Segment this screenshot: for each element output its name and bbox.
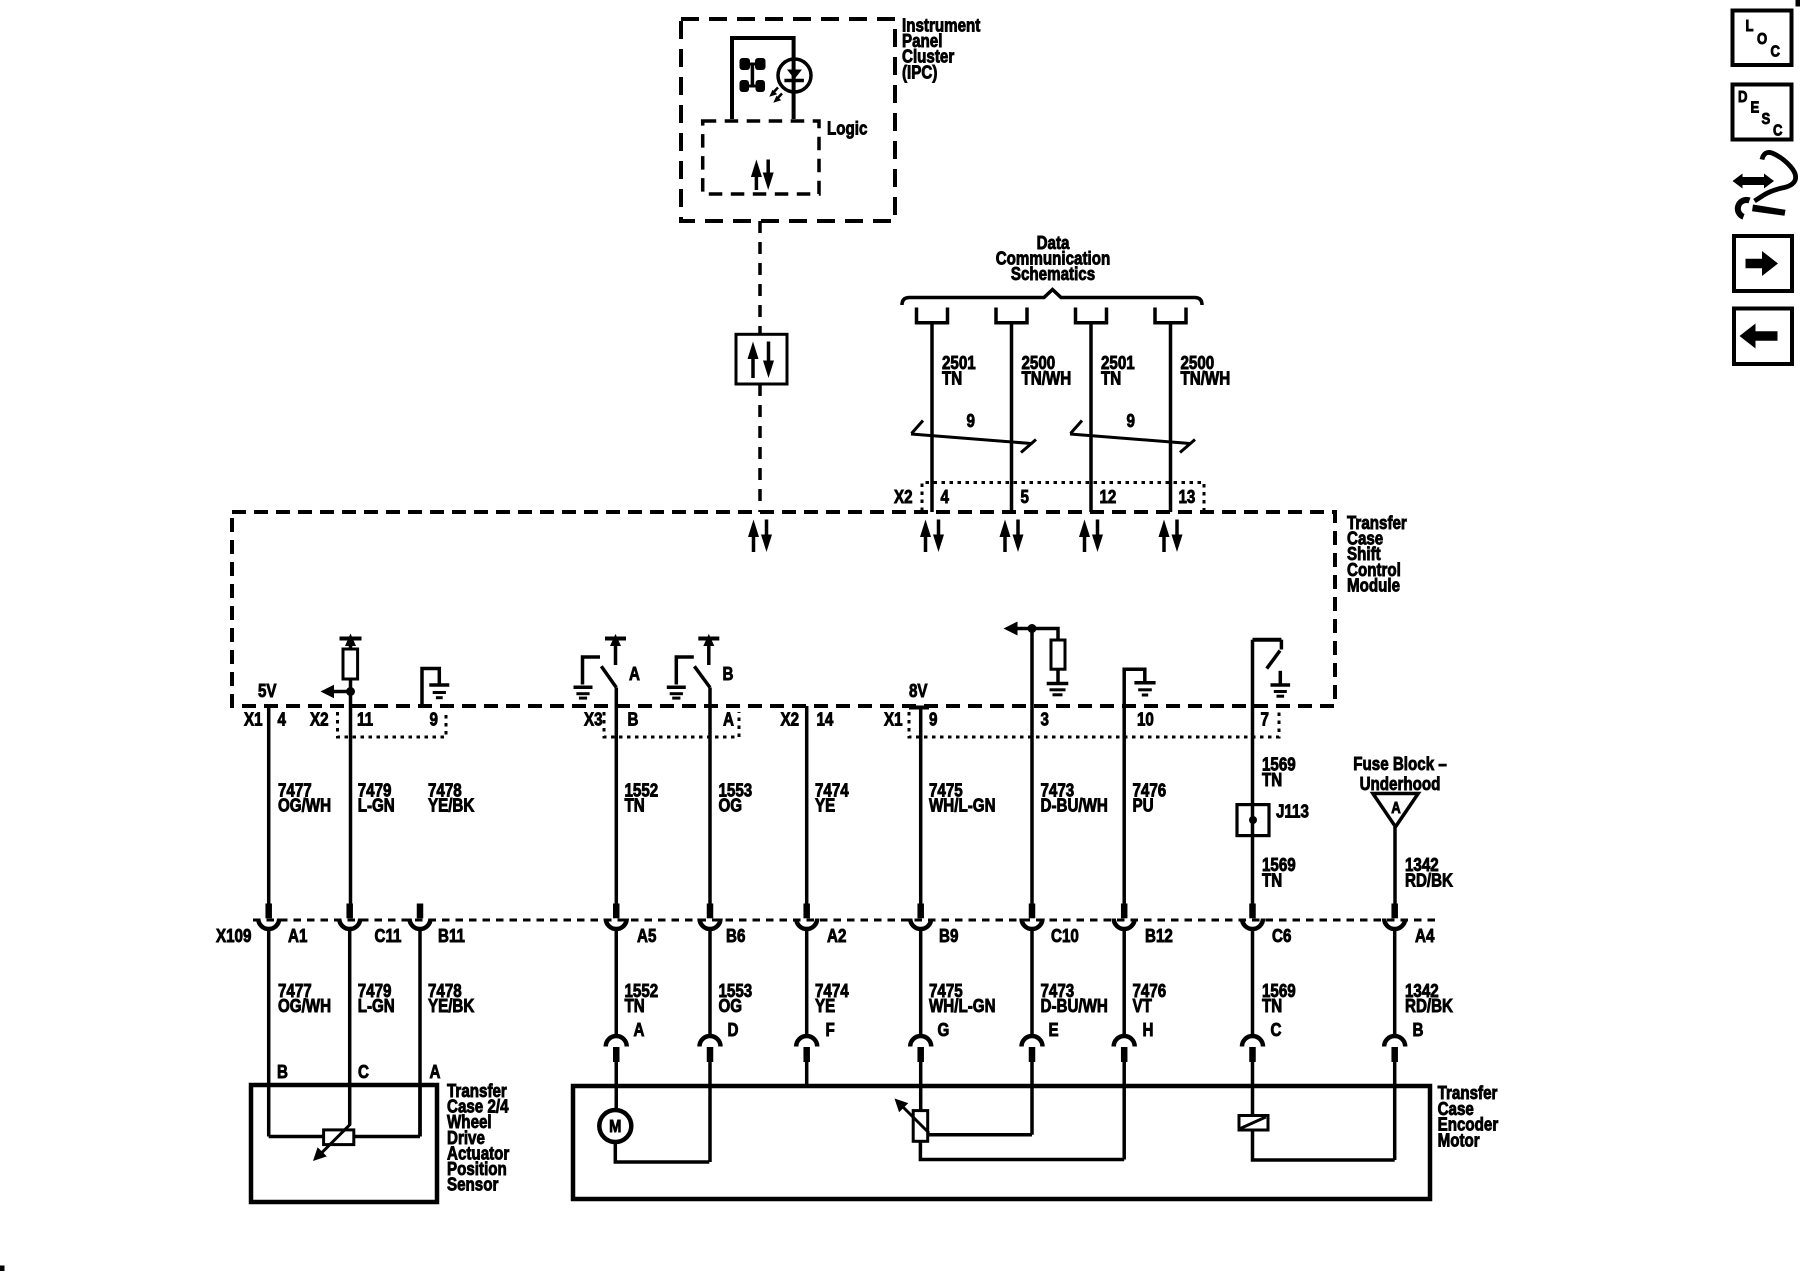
- svg-text:E: E: [1751, 99, 1760, 116]
- up/down arrows inside connector box: [748, 342, 775, 379]
- wire label 7475 WH/L-GN: [929, 780, 996, 816]
- signal direction arrow (left): [321, 685, 351, 698]
- ground below R2: [1047, 669, 1069, 695]
- svg-text:3: 3: [1041, 709, 1049, 730]
- sensor potentiometer wiper arrow: [313, 1124, 351, 1161]
- wire switch B to pin X3-A: [708, 688, 712, 905]
- svg-text:C: C: [1271, 1020, 1282, 1041]
- svg-text:G: G: [938, 1020, 950, 1041]
- svg-text:11: 11: [357, 709, 373, 730]
- svg-text:YE/BK: YE/BK: [428, 795, 475, 816]
- X109 terminal B11: male plug: [417, 904, 424, 919]
- svg-text:VT: VT: [1133, 996, 1153, 1017]
- svg-text:Underhood: Underhood: [1360, 774, 1441, 795]
- encoder pot wiper arrow: [895, 1099, 930, 1134]
- svg-text:A5: A5: [637, 926, 656, 947]
- twisted pair symbol 2: [1070, 421, 1195, 453]
- encoder switch contact: [1239, 1116, 1395, 1161]
- svg-text:Motor: Motor: [1438, 1130, 1480, 1151]
- X109 terminal B6: female arc: [700, 919, 721, 930]
- svg-text:C6: C6: [1272, 926, 1291, 947]
- Transfer Case 2/4 Wheel Drive Actuator Position Sensor box: [251, 1085, 437, 1202]
- wire label 7473 D-BU/WH (below X109): [1041, 981, 1108, 1017]
- svg-text:(IPC): (IPC): [902, 62, 937, 83]
- svg-text:RD/BK: RD/BK: [1405, 870, 1454, 891]
- svg-text:Schematics: Schematics: [1011, 264, 1095, 285]
- data bus terminal 2 (U symbol): [996, 308, 1027, 323]
- mode switch A inside module: [574, 634, 627, 698]
- X2 top connector dotted box: [922, 483, 1204, 512]
- wire X109 down to encoder connector (x=1252.5): [1251, 930, 1255, 1036]
- wire X1-4 (5V reference): [267, 706, 271, 904]
- wire X109 down to encoder connector (x=806.7): [805, 930, 809, 1036]
- svg-text:J113: J113: [1276, 801, 1309, 822]
- svg-text:M: M: [609, 1117, 621, 1137]
- wire label 1569 TN (below J113): [1262, 855, 1296, 891]
- svg-text:RD/BK: RD/BK: [1405, 996, 1454, 1017]
- X109 terminal C11: male plug: [346, 904, 353, 919]
- back arrow icon box: [1734, 309, 1792, 365]
- fuse A triangle symbol: [1373, 794, 1418, 827]
- mode switch B inside module: [667, 634, 720, 698]
- page corner mark bottom-left: [0, 1266, 5, 1272]
- svg-text:A: A: [1391, 800, 1401, 817]
- encoder connector terminal A: male plug: [613, 1047, 620, 1062]
- wire pin X1-7: [1251, 640, 1255, 904]
- svg-text:L: L: [1746, 18, 1754, 35]
- encoder connector terminal C: male plug: [1249, 1047, 1256, 1062]
- svg-text:OG: OG: [719, 795, 743, 816]
- wire label 1342 RD/BK (below X109): [1405, 981, 1454, 1017]
- resistor R2: [1051, 640, 1065, 669]
- in-line connector box on serial data line: [736, 334, 787, 384]
- X2 pin dotted box (pins 11, 9): [338, 712, 447, 737]
- encoder connector terminal G: male plug: [917, 1047, 924, 1062]
- svg-text:X109: X109: [216, 926, 251, 947]
- wire label 1553 OG: [719, 780, 753, 816]
- X109 terminal A4: female arc: [1384, 919, 1405, 930]
- LED indicator U1 circle: [778, 59, 811, 92]
- 4WD drivetrain icon: [740, 58, 766, 92]
- X109 terminal C6: male plug: [1249, 904, 1256, 919]
- svg-text:Sensor: Sensor: [447, 1174, 499, 1195]
- wire label 1553 OG (below X109): [719, 981, 753, 1017]
- svg-text:C: C: [358, 1062, 369, 1083]
- svg-text:YE: YE: [815, 795, 835, 816]
- wire B11 to sensor A: [418, 930, 422, 1137]
- wire label 1552 TN: [625, 780, 659, 816]
- svg-text:C: C: [1773, 122, 1783, 139]
- wire B into encoder box: [1393, 1062, 1397, 1160]
- X109 inline connector dashed line: [253, 919, 1440, 922]
- wire X109 down to encoder connector (x=616.25): [615, 930, 619, 1036]
- svg-text:X3: X3: [584, 709, 603, 730]
- wire H into encoder box: [1122, 1062, 1126, 1160]
- wire A into motor: [615, 1062, 619, 1110]
- LED diode symbol: [784, 70, 804, 81]
- IPC indicator lamp branch (solid U): [732, 38, 794, 119]
- svg-text:C10: C10: [1051, 926, 1079, 947]
- Fuse Block - Underhood label: [1353, 754, 1447, 795]
- svg-text:B: B: [277, 1062, 288, 1083]
- X109 terminal B11: female arc: [410, 919, 431, 930]
- data bus wire 3: [1089, 323, 1093, 512]
- wire switch A to pin X3-B: [615, 688, 619, 905]
- svg-text:WH/L-GN: WH/L-GN: [929, 795, 996, 816]
- svg-text:TN: TN: [625, 795, 645, 816]
- encoder connector terminal C: female arc: [1242, 1036, 1263, 1047]
- internal ground at pin X1-10: [1124, 669, 1155, 706]
- X3 pin dotted box (pins B, A): [604, 712, 739, 737]
- svg-text:A1: A1: [288, 926, 307, 947]
- wire label 2500 TN/WH: [1022, 353, 1072, 389]
- motor M circle: [599, 1110, 631, 1142]
- svg-text:9: 9: [1127, 411, 1135, 432]
- svg-text:L-GN: L-GN: [358, 795, 395, 816]
- Transfer Case Shift Control Module dashed box: [232, 512, 1335, 706]
- data bus terminal 4 (U symbol): [1155, 308, 1186, 323]
- svg-text:10: 10: [1137, 709, 1154, 730]
- svg-text:A2: A2: [827, 926, 846, 947]
- svg-text:5V: 5V: [258, 681, 277, 702]
- wire pin X1-3: [1030, 706, 1034, 904]
- wire label 7476 VT (below X109): [1133, 981, 1167, 1017]
- X109 terminal C11: female arc: [339, 919, 360, 930]
- svg-text:PU: PU: [1133, 795, 1154, 816]
- Data Communication Schematics label: [996, 233, 1111, 285]
- resistor R1 (pull-up inside module): [343, 649, 358, 679]
- svg-text:X2: X2: [781, 709, 800, 730]
- svg-text:D: D: [1738, 89, 1747, 106]
- encoder connector terminal B: female arc: [1384, 1036, 1405, 1047]
- wire pin X1-10: [1122, 706, 1126, 904]
- svg-text:C11: C11: [375, 926, 402, 947]
- wire A1 to sensor B: [267, 930, 271, 1137]
- svg-text:E: E: [1049, 1020, 1059, 1041]
- svg-text:B6: B6: [726, 926, 745, 947]
- svg-text:B9: B9: [939, 926, 958, 947]
- twisted pair symbol 1: [911, 421, 1036, 453]
- bidirectional data arrows at module pin (x=1091): [1079, 520, 1103, 553]
- wire X109 down to encoder connector (x=1124.2): [1122, 930, 1126, 1036]
- encoder connector terminal D: female arc: [700, 1036, 721, 1047]
- svg-text:YE/BK: YE/BK: [428, 996, 475, 1017]
- junction dot on R1 wire: [346, 687, 355, 696]
- encoder connector terminal H: female arc: [1114, 1036, 1135, 1047]
- X109 terminal B6: male plug: [707, 904, 714, 919]
- encoder connector terminal B: male plug: [1391, 1047, 1398, 1062]
- Transfer Case Encoder Motor box: [573, 1086, 1430, 1199]
- wire X109 down to encoder connector (x=710): [708, 930, 712, 1036]
- svg-text:OG: OG: [719, 996, 743, 1017]
- svg-text:D: D: [728, 1020, 739, 1041]
- encoder connector terminal A: female arc: [606, 1036, 627, 1047]
- svg-text:A: A: [430, 1062, 441, 1083]
- wire label 7474 YE (below X109): [815, 981, 849, 1017]
- svg-text:4: 4: [941, 487, 950, 508]
- X109 terminal A2: male plug: [803, 904, 810, 919]
- X109 terminal B12: female arc: [1114, 919, 1135, 930]
- svg-text:H: H: [1143, 1020, 1154, 1041]
- wire X109 down to encoder connector (x=1394.7): [1393, 930, 1397, 1036]
- X109 terminal B12: male plug: [1121, 904, 1128, 919]
- wire label 7476 PU: [1133, 780, 1167, 816]
- svg-text:B11: B11: [438, 926, 465, 947]
- serial data up/down arrows inside Logic box: [751, 160, 774, 191]
- svg-text:B: B: [628, 709, 639, 730]
- svg-text:TN: TN: [625, 996, 645, 1017]
- svg-text:L-GN: L-GN: [358, 996, 395, 1017]
- internal switch at pin X1-7: [1253, 640, 1291, 697]
- X109 terminal B9: male plug: [917, 904, 924, 919]
- wire label 1569 TN (below X109): [1262, 981, 1296, 1017]
- svg-text:A4: A4: [1415, 926, 1435, 947]
- svg-text:TN: TN: [1262, 870, 1282, 891]
- wire label 7478 YE/BK (below X109): [428, 981, 475, 1017]
- svg-text:D-BU/WH: D-BU/WH: [1041, 996, 1108, 1017]
- svg-text:13: 13: [1179, 487, 1196, 508]
- svg-text:B12: B12: [1145, 926, 1173, 947]
- bidirectional data arrows at module pin (x=932): [920, 520, 944, 553]
- brace over data bus terminals: [902, 290, 1202, 306]
- bidirectional data arrows at module pin (x=1011.5): [1000, 520, 1024, 553]
- X109 terminal B9: female arc: [910, 919, 931, 930]
- svg-text:X1: X1: [884, 709, 903, 730]
- svg-text:TN: TN: [1262, 769, 1282, 790]
- wire label 1342 RD/BK: [1405, 855, 1454, 891]
- bidirectional data arrows at module pin (x=760): [748, 520, 772, 553]
- svg-text:Fuse Block –: Fuse Block –: [1353, 754, 1447, 775]
- bidirectional data arrows at module pin (x=1170.5): [1159, 520, 1183, 553]
- wire label 2501 TN: [1101, 353, 1135, 389]
- IPC Logic dashed box: [703, 121, 819, 194]
- svg-text:TN/WH: TN/WH: [1022, 368, 1072, 389]
- data bus wire 2: [1010, 323, 1014, 512]
- encoder connector terminal H: male plug: [1121, 1047, 1128, 1062]
- wire label 7477 OG/WH (below X109): [278, 981, 331, 1017]
- encoder connector terminal F: female arc: [796, 1036, 817, 1047]
- wire label 7478 YE/BK: [428, 780, 475, 816]
- X109 terminal A1: female arc: [258, 919, 279, 930]
- internal ground at pin X2-9: [422, 669, 449, 707]
- sensor potentiometer track: [269, 1085, 420, 1145]
- wire label 7474 YE: [815, 780, 849, 816]
- wire label 2500 TN/WH: [1181, 353, 1231, 389]
- wire C into encoder box to switch: [1251, 1062, 1255, 1116]
- module name text: [1347, 513, 1407, 596]
- svg-text:X2: X2: [310, 709, 329, 730]
- svg-text:S: S: [1762, 111, 1771, 128]
- wire C11 to sensor C (wiper): [348, 930, 352, 1125]
- svg-text:TN/WH: TN/WH: [1181, 368, 1231, 389]
- X109 terminal C10: male plug: [1029, 904, 1036, 919]
- svg-text:Module: Module: [1347, 575, 1400, 596]
- page corner mark top-right: [1796, 0, 1800, 7]
- DESC icon box: [1733, 85, 1792, 140]
- wire label 1552 TN (below X109): [625, 981, 659, 1017]
- X109 terminal C10: female arc: [1022, 919, 1043, 930]
- LOC icon box: [1733, 11, 1792, 66]
- wire pin X2-14: [805, 706, 809, 904]
- wire from fuse to A4: [1393, 827, 1397, 904]
- splice J113 box: [1237, 805, 1269, 836]
- svg-text:9: 9: [929, 709, 937, 730]
- encoder name text: [1438, 1083, 1499, 1151]
- wire label 7475 WH/L-GN (below X109): [929, 981, 996, 1017]
- LED light emission arrows: [769, 88, 782, 103]
- svg-text:TN: TN: [942, 368, 962, 389]
- svg-text:OG/WH: OG/WH: [278, 996, 331, 1017]
- dashed serial data line IPC to module: [758, 221, 762, 334]
- svg-text:7: 7: [1261, 709, 1269, 730]
- service/wiring icon (arrows + wrench): [1733, 152, 1796, 216]
- wire label 1569 TN (above J113): [1262, 754, 1296, 790]
- encoder connector terminal G: female arc: [910, 1036, 931, 1047]
- data bus terminal 3 (U symbol): [1076, 308, 1107, 323]
- Instrument Panel Cluster (IPC) dashed box: [681, 19, 895, 221]
- svg-text:X2: X2: [894, 487, 913, 508]
- svg-text:WH/L-GN: WH/L-GN: [929, 996, 996, 1017]
- encoder connector terminal F: male plug: [803, 1047, 810, 1062]
- svg-text:A: A: [723, 709, 734, 730]
- internal resistor R2 branch with left arrow: [1004, 622, 1059, 707]
- svg-text:TN: TN: [1262, 996, 1282, 1017]
- wire label 7479 L-GN: [358, 780, 395, 816]
- wire label 2501 TN: [942, 353, 976, 389]
- wire from R1 to pin X2-11: [349, 679, 353, 904]
- 8V supply tee bar: [909, 706, 929, 710]
- wire E into encoder box: [1030, 1062, 1034, 1135]
- svg-text:YE: YE: [815, 996, 835, 1017]
- svg-text:F: F: [826, 1020, 835, 1041]
- X109 terminal A1: male plug: [265, 904, 272, 919]
- svg-text:4: 4: [278, 709, 287, 730]
- svg-text:Logic: Logic: [827, 118, 867, 139]
- svg-text:9: 9: [430, 709, 438, 730]
- sensor pin labels B C A: [277, 1062, 440, 1083]
- svg-text:TN: TN: [1101, 368, 1121, 389]
- svg-text:O: O: [1757, 31, 1767, 48]
- svg-text:A: A: [634, 1020, 645, 1041]
- wire label 7477 OG/WH: [278, 780, 331, 816]
- encoder potentiometer: [913, 1111, 1124, 1160]
- data bus terminal 1 (U symbol): [917, 308, 948, 323]
- svg-text:C: C: [1771, 43, 1781, 60]
- encoder connector terminal D: male plug: [707, 1047, 714, 1062]
- svg-text:5: 5: [1021, 487, 1029, 508]
- svg-text:B: B: [723, 664, 734, 685]
- wire D into encoder box: [708, 1062, 712, 1162]
- X109 terminal A5: female arc: [606, 919, 627, 930]
- svg-text:A: A: [629, 664, 640, 685]
- X109 terminal A2: female arc: [796, 919, 817, 930]
- svg-text:9: 9: [967, 411, 975, 432]
- data bus wire 1: [930, 323, 934, 512]
- wire X109 down to encoder connector (x=1032): [1030, 930, 1034, 1036]
- wire F into encoder box: [805, 1062, 809, 1086]
- X1 pin dotted box (pins 9, 3, 10, 7): [909, 712, 1279, 737]
- sensor name text: [447, 1081, 510, 1195]
- svg-text:OG/WH: OG/WH: [278, 795, 331, 816]
- X109 terminal A5: male plug: [613, 904, 620, 919]
- svg-text:14: 14: [817, 709, 834, 730]
- connector/pin designator labels along module bottom: [244, 709, 1269, 730]
- internal supply bar+arrow above resistor R1: [340, 634, 362, 650]
- svg-text:8V: 8V: [909, 681, 928, 702]
- svg-text:B: B: [1413, 1020, 1424, 1041]
- forward arrow icon box: [1734, 236, 1792, 291]
- IPC label text: [902, 15, 981, 83]
- motor loop wiring: [615, 1142, 709, 1162]
- wire X109 down to encoder connector (x=920.7): [919, 930, 923, 1036]
- data bus wire 4: [1169, 323, 1173, 512]
- wire label 7479 L-GN (below X109): [358, 981, 395, 1017]
- X109 terminal C6: female arc: [1242, 919, 1263, 930]
- encoder connector terminal E: male plug: [1029, 1047, 1036, 1062]
- wire G into encoder box to pot: [919, 1062, 923, 1111]
- encoder connector terminal E: female arc: [1022, 1036, 1043, 1047]
- wire label 7473 D-BU/WH: [1041, 780, 1108, 816]
- svg-text:12: 12: [1100, 487, 1117, 508]
- svg-text:D-BU/WH: D-BU/WH: [1041, 795, 1108, 816]
- wire pin X1-9 (8V): [919, 708, 923, 905]
- svg-text:X1: X1: [244, 709, 263, 730]
- X109 terminal A4: male plug: [1391, 904, 1398, 919]
